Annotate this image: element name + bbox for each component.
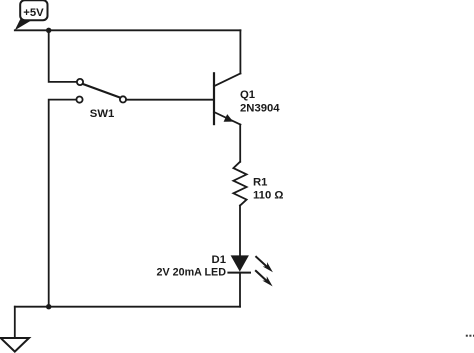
- switch SW1: [76, 79, 126, 103]
- wire emitter to resistor: [239, 125, 241, 162]
- wire from switch pole B to transistor base: [126, 99, 213, 101]
- svg-text:Q1: Q1: [240, 89, 255, 101]
- node junction at ground rail: [46, 304, 51, 309]
- svg-text:+5V: +5V: [23, 7, 44, 19]
- power flag +5V: [15, 0, 48, 30]
- LED light ray arrow lower: [256, 271, 273, 287]
- svg-text:110 Ω: 110 Ω: [253, 190, 283, 202]
- ground symbol: [1, 338, 29, 352]
- node junction at +5V rail: [46, 28, 51, 33]
- svg-text:D1: D1: [212, 254, 226, 266]
- transistor Q1 2N3904: [214, 73, 240, 124]
- svg-text:R1: R1: [253, 177, 267, 189]
- wire bottom ground rail: [15, 306, 240, 308]
- ellipsis marks bottom right: [466, 335, 474, 337]
- wire from switch throw C down left side to ground rail: [49, 100, 76, 307]
- wire top rail from +5V to collector riser: [15, 29, 241, 31]
- LED light ray arrow upper: [256, 257, 273, 273]
- svg-text:2V 20mA LED: 2V 20mA LED: [157, 266, 227, 278]
- wire ground drop: [14, 307, 16, 338]
- wire left branch from top rail to switch throw A: [49, 30, 77, 82]
- svg-text:2N3904: 2N3904: [240, 103, 280, 115]
- wire resistor to LED: [239, 206, 241, 256]
- wire collector riser: [239, 30, 241, 73]
- wire LED cathode to ground rail: [239, 273, 241, 307]
- svg-text:SW1: SW1: [90, 108, 114, 120]
- resistor R1: [233, 162, 246, 206]
- LED D1: [228, 255, 250, 272]
